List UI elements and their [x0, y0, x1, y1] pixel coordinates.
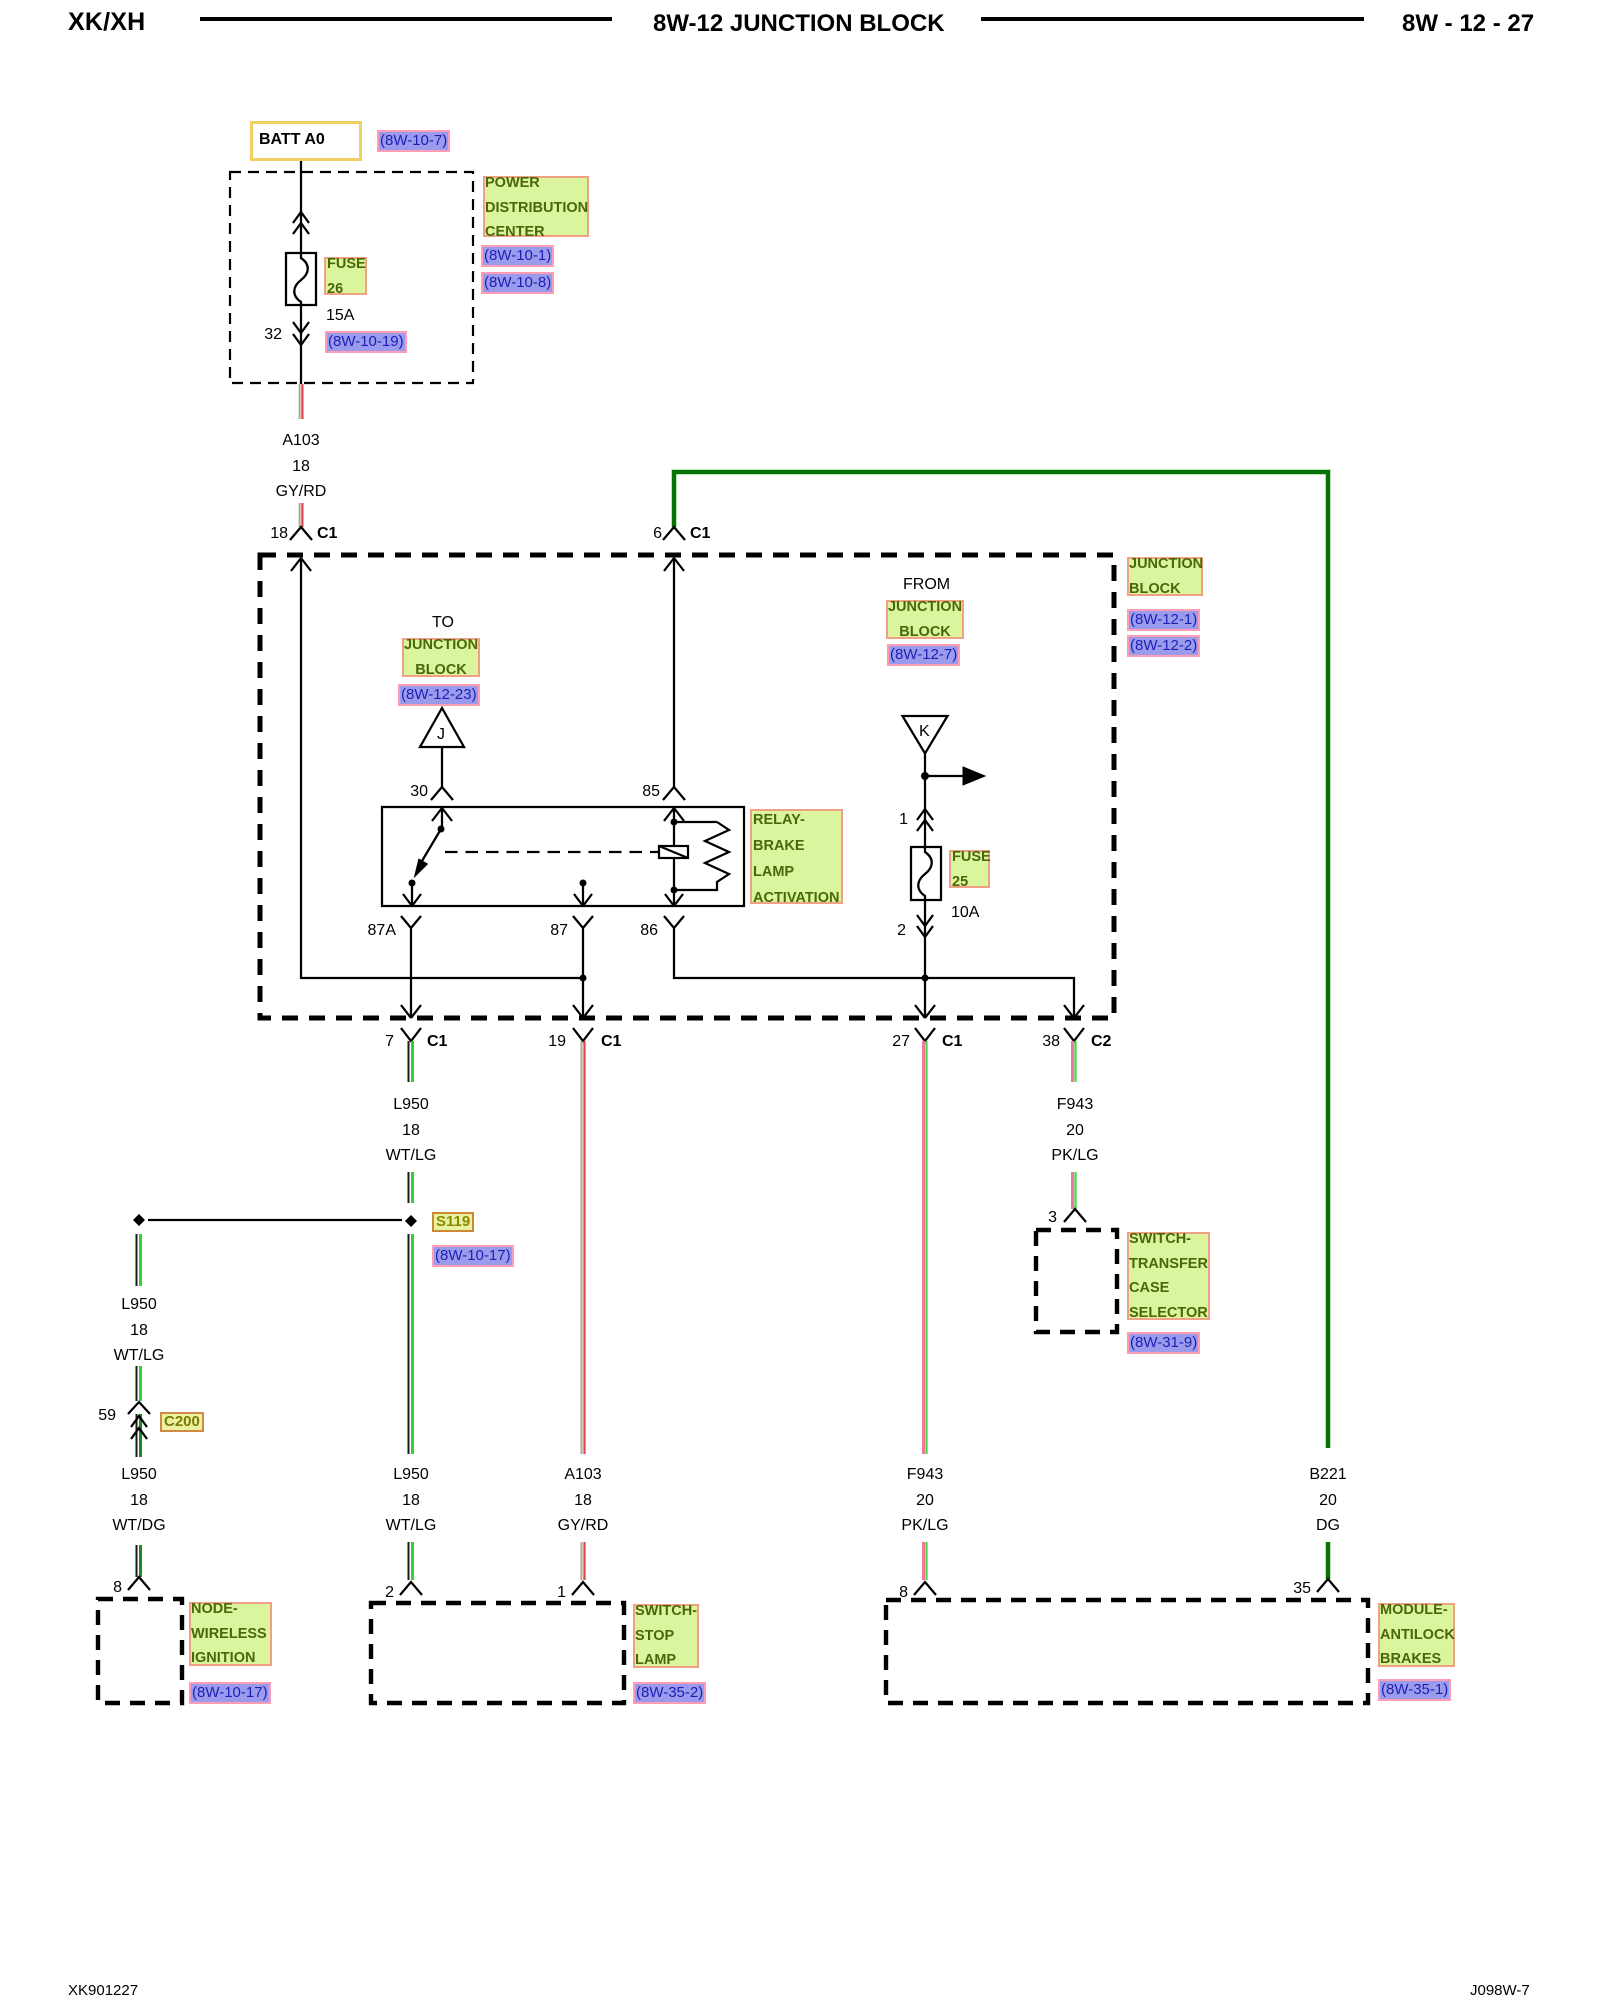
header rule left — [200, 17, 612, 21]
wire pin 18 feed inside junction block — [300, 558, 302, 979]
label fuse 25 — [949, 850, 990, 888]
label (8W-10-8) — [481, 272, 554, 294]
fuse 25 pin 2 double chevron down — [917, 915, 933, 937]
connector C200 pin 59 female half — [128, 1402, 150, 1414]
relay pin 87 female connector — [573, 916, 593, 936]
label (8W-10-1) — [481, 245, 554, 267]
connector C1 pin 7 female — [401, 1028, 421, 1041]
connector C1 pin 6 male chevron — [663, 527, 685, 540]
fuse F25 element squiggle — [918, 847, 932, 900]
relay pin 30 male chevron — [431, 787, 453, 800]
relay actuation dashed link — [445, 851, 659, 853]
connector name C1 — [601, 1032, 621, 1052]
wire A103 GY/RD below C1-19 — [581, 1041, 583, 1454]
connector name C1 — [690, 524, 710, 544]
value 10A — [951, 903, 979, 923]
label switch transfer case selector — [1127, 1232, 1210, 1320]
wire from pin 18 feed across to 87 output node — [301, 977, 583, 979]
module antilock brakes dashed box — [886, 1600, 1368, 1703]
pin number 38 — [1034, 1032, 1060, 1052]
footer right code — [1470, 1981, 1530, 2000]
label switch stop lamp — [633, 1604, 699, 1668]
pin number 8 left — [96, 1578, 122, 1598]
relay coil resistor winding — [674, 822, 729, 890]
header title — [653, 14, 945, 34]
fuse F25 body — [911, 847, 941, 900]
pin number 3 — [1031, 1208, 1057, 1228]
label (8W-31-9) — [1127, 1332, 1200, 1354]
pin 32 double chevron down — [293, 322, 309, 345]
label junction block to — [402, 638, 480, 677]
wire branch S119 to left leg — [148, 1219, 402, 1221]
triangle K off-page symbol — [903, 716, 948, 754]
wire label L950 18 WT/DG — [69, 1462, 209, 1539]
arrow at C1-19 exit — [573, 1005, 593, 1018]
wire label B221 20 DG — [1258, 1462, 1398, 1539]
header page number — [1402, 14, 1534, 34]
pin 3 male chevron transfer case selector — [1064, 1209, 1086, 1222]
wire F943 PK/LG lower segment to pin 8 — [922, 1542, 925, 1580]
label C200 — [160, 1412, 204, 1432]
connector name C2 — [1091, 1032, 1111, 1052]
label (8W-12-23) — [398, 684, 480, 706]
relay switch arm from pin 30 — [432, 808, 452, 821]
wire label F943 20 PK/LG col4 — [1005, 1092, 1145, 1169]
label (8W-35-2) — [633, 1682, 706, 1704]
label (8W-10-17) node — [189, 1682, 271, 1704]
connector name C1 — [317, 524, 337, 544]
switch stop lamp dashed box — [371, 1603, 624, 1703]
wire label A103 18 GY/RD bottom — [513, 1462, 653, 1539]
wire A103 GY/RD lower segment to pin 1 — [581, 1542, 583, 1580]
pin number 1 — [882, 810, 908, 830]
value 15A — [326, 306, 354, 326]
header left model label XK/XH — [68, 12, 145, 32]
label junction block right — [1127, 557, 1203, 596]
pin number 87 — [542, 921, 568, 941]
wire label L950 18 WT/LG col2 — [341, 1092, 481, 1169]
wire fuse 25 to C1-27 — [924, 900, 926, 1018]
wire A103 lower segment to connector C1-18 — [299, 503, 301, 527]
relay coil box symbol — [659, 846, 688, 858]
pin number 6 — [636, 524, 662, 544]
wire 87 down to C1-19 — [582, 936, 584, 1018]
relay pin 87 contact — [580, 880, 587, 887]
pin number 59 — [90, 1406, 116, 1426]
wire B221 lower segment to pin 35 — [1326, 1542, 1331, 1579]
wire 87A down to C1-7 — [410, 936, 412, 1018]
label module antilock brakes — [1378, 1603, 1455, 1667]
pin 8 male chevron module antilock brakes — [914, 1582, 936, 1595]
label (8W-12-2) — [1127, 635, 1200, 657]
wire fuse 26 to PDC edge — [300, 305, 302, 384]
male double chevron on batt feed — [293, 212, 309, 234]
relay coil feed wire pin 85 to 86 — [664, 808, 684, 821]
connector C200 male half double chevron — [131, 1416, 147, 1439]
junction block dashed box — [260, 555, 1114, 1018]
pin number 35 abs — [1285, 1579, 1311, 1599]
wire L950 WT/DG below C200 — [136, 1414, 138, 1457]
wire 86 down and across to C2-38 — [674, 936, 1074, 1018]
pin number 27 — [884, 1032, 910, 1052]
wire L950 WT/LG lower segment to pin 2 — [408, 1542, 410, 1580]
connector C1 pin 19 female — [573, 1028, 593, 1041]
triangle J off-page symbol — [420, 708, 464, 747]
arrow into junction block at pin 18 — [291, 558, 311, 571]
connector name C1 — [427, 1032, 447, 1052]
node wireless ignition dashed box — [98, 1599, 182, 1703]
wire L950 WT/LG below S119 — [408, 1234, 410, 1454]
node junction 86/fuse25 — [922, 975, 929, 982]
pin number 85 — [634, 782, 660, 802]
wire triangle J to relay pin 30 — [441, 747, 443, 788]
label (8W-12-1) — [1127, 609, 1200, 631]
pin number 87A — [356, 921, 396, 941]
pin 8 male chevron node wireless ignition — [128, 1577, 150, 1590]
wire L950 WT/LG left leg upper — [136, 1234, 138, 1286]
arrow into junction block at pin 6 — [664, 558, 684, 571]
node junction 87/A103 — [580, 975, 587, 982]
relay pin 85 male chevron — [663, 787, 685, 800]
header rule right — [981, 17, 1364, 21]
wire F943 PK/LG below C1-27 — [922, 1041, 925, 1454]
wire L950 WT/LG segment above S119 — [408, 1172, 410, 1203]
fuse F26 body — [286, 253, 316, 305]
wire pin 6 down to relay pin 85 — [673, 558, 675, 788]
relay brake lamp activation box — [382, 807, 744, 906]
wire label A103 18 GY/RD — [231, 428, 371, 505]
pin number 2 — [880, 921, 906, 941]
arrow at C2-38 exit — [1064, 1005, 1084, 1018]
wire green B221 from C1-6 up and across to right side — [674, 472, 1328, 1448]
splice S119 — [405, 1215, 417, 1227]
pin 35 male chevron module antilock brakes — [1317, 1579, 1339, 1592]
relay pin 87A female connector — [401, 916, 421, 936]
label (8W-10-19) — [325, 331, 407, 353]
connector C1 pin 27 female — [915, 1028, 935, 1041]
label fuse 26 — [324, 257, 367, 295]
letter J — [437, 725, 445, 745]
wire F943 PK/LG below C2-38 — [1071, 1041, 1074, 1082]
pin number 2 stop lamp — [368, 1583, 394, 1603]
text TO — [432, 613, 454, 633]
wire label L950 18 WT/LG left leg — [69, 1292, 209, 1369]
switch transfer case selector dashed box — [1036, 1230, 1117, 1332]
pin number 1 stop lamp — [540, 1583, 566, 1603]
pin number 30 — [402, 782, 428, 802]
label power distribution center — [483, 176, 589, 237]
pin number 19 — [540, 1032, 566, 1052]
wire L950 WT/LG segment below C1-7 — [408, 1041, 410, 1082]
wire triangle K to fuse 25 — [924, 753, 926, 847]
relay pin 86 female connector — [664, 916, 684, 936]
label node wireless ignition — [189, 1602, 272, 1666]
pin number 8 abs — [882, 1583, 908, 1603]
pin 2 male chevron switch stop lamp — [400, 1582, 422, 1595]
label (8W-35-1) — [1378, 1679, 1451, 1701]
branch arrow to right from K feed — [925, 775, 963, 777]
wire L950 WT/DG lower segment to pin 8 — [136, 1545, 138, 1577]
wire label L950 18 WT/LG col2 bottom — [341, 1462, 481, 1539]
connector C1 pin 18 male chevron — [290, 527, 312, 540]
node on K feed — [921, 772, 929, 780]
fuse 25 pin 1 double chevron up — [917, 809, 933, 831]
power distribution center dashed box — [230, 172, 473, 383]
connector C2 pin 38 female — [1064, 1028, 1084, 1041]
pin number 86 — [632, 921, 658, 941]
label S119 — [432, 1212, 474, 1232]
arrow at C1-7 exit — [401, 1005, 421, 1018]
wire L950 WT/LG left leg to C200 — [136, 1366, 138, 1401]
node on left leg — [133, 1214, 145, 1226]
arrow at C1-27 exit — [915, 1005, 935, 1018]
pin 1 male chevron switch stop lamp — [572, 1582, 594, 1595]
label relay brake lamp activation — [750, 809, 843, 904]
battery feed BATT A0 box — [250, 121, 362, 161]
letter K — [919, 722, 930, 742]
pin number 7 — [368, 1032, 394, 1052]
wire F943 PK/LG to pin 3 — [1071, 1172, 1074, 1209]
wire label F943 20 PK/LG bottom — [855, 1462, 995, 1539]
wire A103 18 GY/RD upper segment — [299, 384, 301, 419]
label (8W-10-17) splice — [432, 1245, 514, 1267]
label junction block from — [886, 600, 964, 639]
label (8W-10-7) — [377, 130, 450, 152]
wire batt A0 to fuse 26 — [300, 161, 302, 253]
label (8W-12-7) — [887, 644, 960, 666]
pin number 18 — [262, 524, 288, 544]
relay pin 87A contact — [409, 880, 416, 887]
connector name C1 — [942, 1032, 962, 1052]
footer left code — [68, 1981, 138, 2000]
fuse F26 element squiggle — [294, 253, 308, 306]
pin number 32 — [256, 325, 282, 345]
text FROM — [903, 575, 950, 595]
